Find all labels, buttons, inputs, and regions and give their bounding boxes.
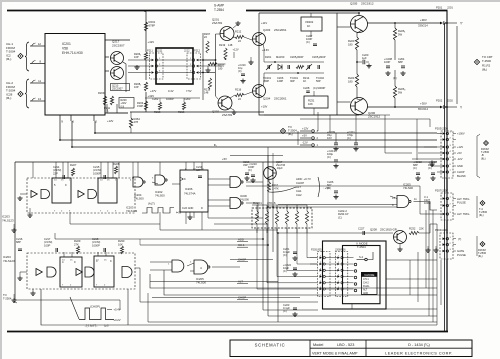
svg-text:150P: 150P (137, 104, 143, 108)
svg-text:14: 14 (62, 260, 65, 262)
wire row1 component stubs (32, 162, 34, 178)
svg-text:(Ⅲ₀): (Ⅲ₀) (481, 156, 486, 160)
svg-text:7: 7 (62, 284, 64, 286)
wire CH-1 pins (30, 45, 45, 47)
svg-text:1K: 1K (307, 24, 310, 28)
svg-text:+4.6V: +4.6V (262, 48, 269, 52)
buffer row2 b (76, 269, 82, 276)
P205 pin row 6 (320, 288, 323, 290)
border bottom line (7, 331, 448, 333)
wire bottom bus 1 (150, 274, 437, 288)
transistor Q207 (264, 167, 277, 180)
svg-text:+0.2V: +0.2V (114, 318, 121, 322)
wire CH-1 bracket (25, 42, 29, 71)
transistor Q203 (253, 33, 266, 46)
svg-text:22K: 22K (419, 227, 424, 231)
border right bus vertical (446, 11, 448, 332)
junction dots Q cluster (202, 59, 204, 61)
flip-flop IC206 box (180, 170, 208, 212)
svg-text:EHH-714-H30: EHH-714-H30 (62, 51, 83, 55)
gate row2 c (122, 267, 132, 278)
svg-text:3: 3 (338, 268, 340, 270)
varactor row symbols (267, 65, 269, 69)
connector P207 pin 1 (443, 197, 446, 200)
wire vmode out right (386, 259, 437, 261)
svg-text:22P: 22P (53, 171, 58, 175)
svg-text:Y′: Y′ (460, 22, 463, 26)
wire varactor bus bottom (264, 72, 324, 74)
wire left section vertical (14, 162, 16, 300)
switch S2 arm (365, 258, 368, 261)
IC201 right pin to R ladder (105, 39, 130, 41)
svg-text:9: 9 (65, 183, 67, 187)
bus vertical b4 (277, 233, 279, 322)
svg-text:478: 478 (134, 120, 139, 124)
wire boundary crossing v1 (267, 147, 269, 182)
svg-text:180: 180 (348, 42, 353, 46)
wire left rail bottom (15, 300, 120, 310)
svg-text:10K: 10K (308, 102, 313, 106)
wire mid cross y155 (230, 155, 283, 157)
svg-text:R216: R216 (235, 87, 242, 91)
svg-text:16V: 16V (327, 136, 332, 140)
wire ic206 drop lines (201, 212, 203, 230)
svg-text:ALT. TRIG.: ALT. TRIG. (457, 197, 470, 201)
bus vertical second (444, 23, 446, 331)
bus vertical b2 (267, 155, 269, 316)
svg-text:47K×6: 47K×6 (267, 201, 276, 205)
ground P204 a (427, 248, 429, 250)
svg-text:13: 13 (38, 97, 42, 101)
svg-text:2SC1907: 2SC1907 (112, 87, 123, 91)
svg-text:R209: R209 (98, 91, 105, 95)
wire gate right out (246, 181, 263, 183)
svg-text:(C): (C) (283, 269, 287, 273)
svg-text:5W: 5W (398, 90, 402, 94)
wire alt line to gate (268, 206, 397, 208)
connector P204 pin 2 (443, 243, 446, 246)
wire amp frame box (259, 13, 337, 115)
wire J211 in row2 (128, 65, 151, 67)
svg-text:C202: C202 (152, 97, 159, 101)
connector J206 dashed box (335, 252, 348, 297)
svg-text:0.8: 0.8 (121, 105, 125, 108)
wire Q206 base (337, 101, 351, 103)
Q213 label (111, 84, 130, 91)
svg-text:C205₂820P: C205₂820P (312, 55, 326, 59)
ground Q201 (237, 21, 239, 23)
svg-text:2: 2 (190, 262, 192, 264)
svg-text:P207/J207: P207/J207 (435, 189, 448, 193)
op-amp IC201 box (45, 34, 105, 116)
title block divider vertical 2 (365, 340, 367, 357)
P205 pin row 3 (320, 269, 323, 271)
IC201 bottom pin 9 (59, 115, 61, 121)
svg-text:Q203: Q203 (263, 28, 271, 32)
node dot amp b (297, 72, 299, 74)
svg-text:11: 11 (38, 79, 41, 83)
svg-text:R211: R211 (104, 106, 111, 110)
svg-text:(C): (C) (413, 166, 417, 170)
wire CH-2 pins (30, 82, 45, 84)
ground near R204 (136, 65, 138, 67)
flip-flop IC201b box (98, 178, 117, 203)
node dot amp a (274, 61, 276, 63)
svg-text:D - 1434 (⁷∕₉): D - 1434 (⁷∕₉) (408, 343, 430, 347)
svg-text:74LS00: 74LS00 (134, 196, 144, 200)
svg-text:D: D (201, 207, 203, 210)
ground row2 extra (13, 298, 15, 300)
svg-text:1: 1 (168, 264, 170, 266)
svg-text:+5V: +5V (222, 157, 227, 161)
wire box stub top (310, 13, 312, 17)
RA201 resistor 3 (275, 211, 278, 224)
node TO T-2504 diamond (280, 128, 285, 133)
svg-text:(Ⅲ₀): (Ⅲ₀) (288, 132, 293, 136)
svg-text:22: 22 (238, 39, 241, 43)
IC201 left pin 13 (32, 98, 36, 101)
flip-flop row2 a box (60, 257, 82, 287)
wire R264 stub (130, 112, 132, 118)
buffer row1 b (78, 191, 84, 198)
svg-text:9: 9 (74, 260, 76, 264)
RA201 top bus (252, 204, 307, 206)
svg-text:+12V: +12V (457, 145, 463, 149)
flip-flop dashed box row1 (27, 178, 135, 213)
svg-text:+11V: +11V (261, 21, 267, 25)
resistor R205 low (144, 101, 147, 110)
wire J212 to rails (203, 59, 216, 61)
svg-text:74LS123: 74LS123 (2, 218, 14, 222)
svg-text:P203/J203: P203/J203 (435, 127, 448, 131)
connector P207 pin 3 (443, 213, 446, 216)
svg-text:T-2504: T-2504 (3, 296, 12, 300)
wire Q217 emitter rail (123, 62, 126, 92)
svg-text:1000P: 1000P (166, 97, 174, 101)
wire P202 to Y (447, 106, 457, 108)
svg-text:1: 1 (450, 132, 452, 134)
gate IC204 (133, 177, 143, 187)
resistor R224 (355, 74, 358, 87)
svg-text:1: 1 (450, 197, 452, 199)
gate row1 a (41, 190, 50, 199)
svg-text:ALT. TRIG.: ALT. TRIG. (457, 212, 470, 216)
switch contact column (354, 263, 357, 266)
svg-text:(Ⅲ₀): (Ⅲ₀) (478, 254, 483, 258)
gate IC205 b (194, 260, 208, 274)
svg-text:(Ⅲ₀): (Ⅲ₀) (482, 68, 487, 72)
connector P203 pin 1 +100V (443, 132, 446, 135)
svg-text:14: 14 (100, 180, 103, 182)
svg-text:S-2: S-2 (359, 255, 364, 259)
wire net add left (54, 233, 56, 239)
wire RA201 out x257 (257, 228, 318, 289)
svg-text:22: 22 (238, 97, 241, 101)
svg-text:P211: P211 (147, 49, 153, 53)
wire R226a rail (394, 23, 396, 28)
svg-text:P212: P212 (194, 49, 201, 53)
svg-text:⊢0s: ⊢0s (176, 211, 182, 215)
svg-text:Q208: Q208 (370, 228, 377, 232)
svg-text:4: 4 (320, 275, 322, 277)
svg-text:65V/214: 65V/214 (418, 107, 429, 111)
flip-flop dashed box row2 (27, 253, 135, 289)
gate IC202 (155, 175, 165, 185)
wire Q206 collector down (358, 114, 360, 117)
svg-text:10P: 10P (134, 55, 139, 59)
gate IC205 a (172, 260, 184, 272)
border top line right segment (246, 10, 448, 12)
wire Q206 out (368, 106, 441, 108)
RA201 resistor 6 (305, 211, 308, 224)
ff row1b pins (100, 162, 102, 178)
connector P207 pin 2 (443, 204, 446, 207)
svg-text:3: 3 (69, 210, 71, 212)
IC201 bottom pin 2 (93, 115, 95, 121)
svg-text:+30V: +30V (420, 102, 427, 106)
transistor Q202 (218, 96, 232, 110)
svg-text:7.5V: 7.5V (186, 89, 192, 93)
svg-text:5: 5 (320, 281, 322, 283)
capacitor C220 (357, 61, 362, 63)
wire Q202 base feed (216, 96, 219, 99)
small box R209b (119, 98, 134, 109)
svg-text:T-2504: T-2504 (357, 245, 366, 249)
svg-text:S-AMP: S-AMP (214, 3, 224, 7)
svg-text:LEADER ELECTRONICS CORP.: LEADER ELECTRONICS CORP. (385, 352, 453, 356)
svg-text:6: 6 (72, 120, 74, 124)
wire right bottom vertical c (425, 210, 427, 288)
wire vmode feeds left (310, 257, 318, 259)
node CH-1 input diamond (18, 53, 23, 58)
connector P211 dashed box (150, 53, 164, 79)
waveform chop entry curve (70, 297, 79, 319)
svg-text:R224: R224 (348, 76, 355, 80)
connector P203 pin 4 +5V (443, 152, 446, 155)
svg-text:Q204: Q204 (263, 97, 271, 101)
wire P203 feeds (437, 133, 442, 135)
connector P207 dashed box (441, 193, 453, 220)
wire row1 gate stubs (137, 162, 139, 177)
wire R226 mid node (387, 62, 389, 66)
wire RA201 out x307 (307, 228, 318, 258)
ground row1 b (29, 213, 31, 215)
wire vmode out 2 (386, 278, 437, 280)
svg-text:+5.4V: +5.4V (114, 308, 121, 312)
J211 pin pair row 1 (152, 59, 155, 61)
svg-text:2SC2061: 2SC2061 (274, 97, 287, 101)
svg-text:14: 14 (54, 180, 57, 182)
svg-text:3: 3 (450, 145, 452, 147)
svg-text:→⎣0.6μS⎤←: →⎣0.6μS⎤← (84, 323, 98, 327)
wire R220 tap (217, 63, 226, 65)
resistor R216 (182, 102, 185, 110)
svg-text:P201: P201 (436, 6, 443, 10)
wire alt trig route (246, 186, 442, 214)
wire gate c input2 (390, 196, 397, 199)
ground P204 b (435, 248, 437, 250)
transistor Q213 (111, 67, 124, 80)
ground Q208 (399, 247, 401, 249)
wire J212 out row1 (199, 59, 215, 61)
svg-text:(7): (7) (458, 237, 461, 241)
svg-text:120P: 120P (277, 79, 283, 83)
svg-text:180: 180 (348, 79, 353, 83)
svg-text:+12V: +12V (302, 127, 309, 131)
wire Q202 emitter to R216 (230, 95, 235, 98)
wire right bundle v3 (436, 224, 438, 325)
IC206 pins top (185, 162, 187, 170)
svg-text:68P: 68P (398, 60, 403, 64)
wire R223 rail (357, 30, 362, 37)
svg-text:30P: 30P (290, 79, 295, 83)
svg-text:2: 2 (450, 138, 452, 140)
svg-text:2: 2 (104, 284, 106, 286)
gate row1 b (88, 190, 97, 199)
svg-text:7: 7 (450, 170, 452, 172)
wire RA201 out x297 (297, 228, 318, 264)
node emitter mid dot (356, 61, 358, 63)
svg-text:2: 2 (450, 243, 452, 245)
svg-text:339/214: 339/214 (418, 23, 428, 27)
wire Q207 tail (269, 187, 296, 192)
svg-text:1000P: 1000P (92, 243, 100, 247)
wire Q205 base (337, 26, 351, 28)
wire bus pin9 horizontal (60, 121, 437, 140)
resistor R209 (103, 96, 106, 105)
svg-text:C205₁820P: C205₁820P (290, 55, 304, 59)
wire bottom bus 3 (41, 289, 437, 325)
wire bundle mid3 (160, 229, 278, 231)
wire RA201 out x267 (267, 228, 318, 283)
svg-text:2: 2 (107, 210, 109, 212)
svg-text:LBO - 523: LBO - 523 (337, 343, 354, 347)
svg-text:J201: J201 (447, 6, 453, 10)
svg-text:148: 148 (204, 90, 209, 94)
svg-text:(C): (C) (327, 155, 331, 159)
svg-text:J206/P06: J206/P06 (335, 249, 346, 252)
resistor R204 (144, 82, 147, 91)
wire right bundle v1 (428, 202, 430, 317)
svg-text:7: 7 (96, 284, 98, 286)
svg-text:(C): (C) (238, 69, 242, 73)
ground Q202 (233, 110, 235, 112)
node FROM T-2500 P204 (480, 242, 485, 247)
svg-text:R226₂: R226₂ (398, 87, 405, 91)
svg-text:: +5V: : +5V (323, 186, 330, 190)
wire Q205 out (368, 22, 441, 24)
wire gates chain (152, 182, 158, 184)
node TO CRT label (474, 59, 479, 64)
J211 pin pair row 3 (152, 71, 155, 73)
ground row2 b (32, 291, 34, 293)
J211 pin pair row 2 (152, 65, 155, 67)
svg-text:Y: Y (460, 106, 463, 110)
wire boundary crossing v2 (272, 153, 274, 182)
resistor R217 (267, 182, 270, 192)
svg-text:ADD: ADD (238, 238, 244, 242)
svg-text:MA150: MA150 (276, 55, 285, 59)
title block outer box (230, 340, 472, 357)
RA201 resistor 5 (295, 211, 298, 224)
resistor R206 (144, 52, 147, 60)
transistor Q208 (394, 231, 407, 244)
svg-text:+42V: +42V (148, 40, 155, 44)
wire chop to Q208 (278, 232, 393, 234)
wire IC205 in (150, 261, 172, 263)
svg-text:3: 3 (115, 210, 117, 212)
svg-text:P205/J05: P205/J05 (311, 249, 322, 252)
trimmer box R231 (304, 96, 328, 108)
svg-text:R223: R223 (348, 39, 355, 43)
svg-text:V58: V58 (62, 46, 68, 50)
svg-text:74LS123: 74LS123 (126, 209, 138, 213)
svg-text:2: 2 (450, 204, 452, 206)
ground IC206 (189, 215, 191, 217)
svg-text:J212: J212 (184, 49, 190, 53)
svg-text:56P: 56P (316, 79, 321, 83)
wire IC205 out (212, 266, 240, 268)
transistor Q201 (220, 27, 234, 41)
wire heavy bus below P203 (446, 178, 448, 193)
label +5V brace (318, 177, 320, 197)
wire right bottom vertical a (409, 260, 411, 295)
svg-text:100P: 100P (384, 60, 390, 64)
wire bundle mid2 (214, 223, 268, 225)
svg-text:15: 15 (70, 260, 73, 262)
transistor Q217 (111, 52, 124, 65)
svg-text:-12V: -12V (457, 157, 463, 161)
svg-text:1K: 1K (303, 79, 306, 83)
svg-text:Ⅲ₀: Ⅲ₀ (214, 144, 217, 147)
svg-text:C203: C203 (184, 97, 191, 101)
svg-text:74LS90: 74LS90 (240, 197, 249, 201)
wire supply drop (297, 131, 299, 145)
RA201 resistor 2 (265, 211, 268, 224)
wire vertical x128 (127, 289, 129, 325)
svg-text:2: 2 (70, 284, 72, 286)
svg-text:R232: R232 (409, 227, 416, 231)
svg-text:14: 14 (96, 260, 99, 262)
svg-text:(Ⅲ₀): (Ⅲ₀) (479, 213, 484, 217)
wire right mid rail y115 (264, 114, 390, 116)
svg-text:1000P: 1000P (93, 171, 101, 175)
connector P204 dashed box (440, 233, 453, 259)
svg-text:74LS00: 74LS00 (403, 186, 413, 190)
svg-text:27K: 27K (74, 242, 79, 246)
ground right of J212 (207, 68, 209, 70)
wire heavy bus below P204 (446, 259, 448, 331)
wire CH-2 bracket (25, 79, 29, 108)
P205 pin row 4 (320, 275, 323, 277)
wire bus pin6 horizontal (72, 121, 437, 147)
wire bundle mid3 extend (70, 223, 160, 225)
svg-text:T-2554: T-2554 (214, 8, 224, 12)
svg-text:12: 12 (38, 42, 42, 46)
wire Q205 collector up (358, 13, 360, 16)
connector P203 pin 7 CHOP (443, 171, 446, 174)
wire supply verticals (317, 112, 319, 131)
wire bus pin2 horizontal (95, 121, 437, 133)
wire R226b rail (394, 98, 396, 107)
connector P205 dashed box (318, 252, 331, 297)
svg-text:3: 3 (320, 268, 322, 270)
svg-text:2: 2 (338, 262, 340, 264)
svg-text:CH2: CH2 (296, 193, 302, 197)
svg-text:678P: 678P (149, 23, 156, 27)
svg-text:IC206: IC206 (185, 187, 193, 191)
svg-text:0.4V: 0.4V (168, 89, 174, 93)
